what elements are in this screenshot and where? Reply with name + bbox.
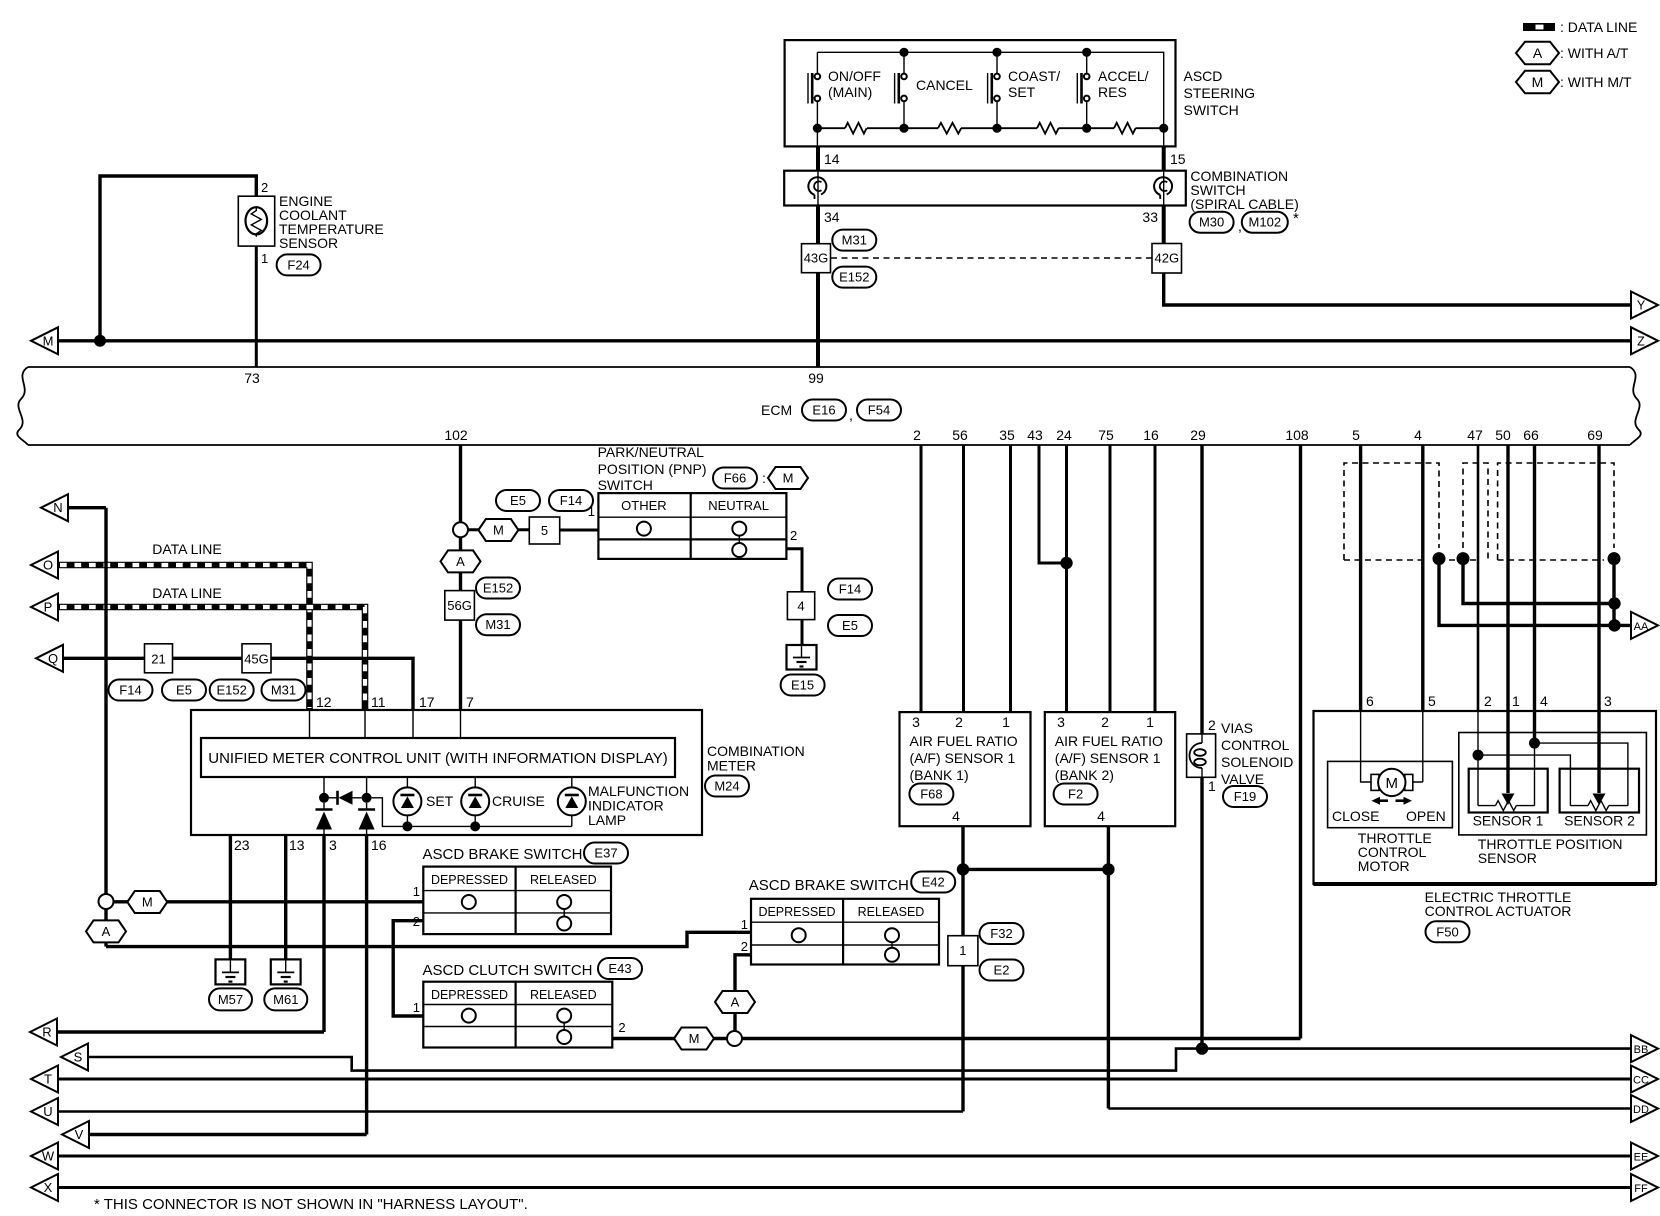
- connector oval E5 (PNP): [496, 490, 540, 511]
- svg-text:ASCD CLUTCH SWITCH: ASCD CLUTCH SWITCH: [423, 962, 593, 979]
- connector box 1 (F32/E2): [948, 936, 978, 966]
- svg-text:2: 2: [261, 180, 268, 195]
- connector oval F66: [713, 468, 757, 489]
- hexagon M (PNP branch): [478, 519, 518, 541]
- wire ECM 102 down to meter pin 7: [459, 445, 462, 710]
- svg-text:DATA LINE: DATA LINE: [152, 541, 222, 557]
- svg-text:23: 23: [234, 837, 250, 853]
- legend data line symbol: [1523, 19, 1637, 35]
- svg-text:1: 1: [959, 943, 966, 958]
- svg-text:E43: E43: [608, 961, 631, 976]
- svg-text:U: U: [43, 1104, 52, 1119]
- connector box 4: [787, 592, 814, 620]
- svg-text:66: 66: [1523, 427, 1539, 443]
- junction dot bank1 pin4: [957, 863, 969, 875]
- data line wire from P to meter pin 11: [58, 607, 365, 710]
- ground symbol M61: [271, 959, 301, 984]
- junction dot on Z line at x=100: [94, 335, 106, 347]
- spiral cable contact symbol left: [808, 171, 826, 206]
- svg-text:FF: FF: [1634, 1183, 1648, 1195]
- ASCD steering switch outer box: [785, 40, 1176, 146]
- wires meter top edge to unified unit: [309, 710, 311, 738]
- connector oval E5 (Q line): [162, 680, 206, 701]
- svg-text:1: 1: [1208, 778, 1216, 794]
- svg-text:2: 2: [1101, 714, 1109, 730]
- svg-text:ON/OFF: ON/OFF: [828, 68, 881, 84]
- dot CRUISE on rail: [470, 821, 480, 831]
- svg-text:F14: F14: [560, 493, 582, 508]
- wire ECM 24 to AF bank2 pin 3: [1065, 445, 1068, 712]
- svg-text:M61: M61: [273, 992, 298, 1007]
- arrow S (left edge): [61, 1044, 88, 1071]
- svg-text:43: 43: [1027, 427, 1043, 443]
- svg-text:E5: E5: [510, 493, 526, 508]
- svg-text:1: 1: [1512, 693, 1520, 709]
- ECM band top line: [28, 366, 1630, 368]
- svg-text:DEPRESSED: DEPRESSED: [431, 988, 508, 1002]
- wire unit to pin16 node: [366, 777, 368, 798]
- svg-text:* THIS CONNECTOR IS NOT SHOWN: * THIS CONNECTOR IS NOT SHOWN IN "HARNES…: [94, 1196, 528, 1213]
- wire box 5 to PNP pin 1: [560, 529, 599, 532]
- junction dot bank2 pin4: [1102, 863, 1114, 875]
- svg-text:ECM: ECM: [761, 402, 792, 418]
- svg-text:RELEASED: RELEASED: [530, 873, 597, 887]
- wire bank1 pin 4 down through box 1 to U line: [961, 826, 964, 1111]
- svg-text:ACCEL/: ACCEL/: [1098, 68, 1149, 84]
- ASCD clutch switch E43 table: [423, 982, 612, 1048]
- svg-text:SENSOR: SENSOR: [279, 235, 338, 251]
- wire X to FF: [58, 1186, 1631, 1189]
- junction dot VIAS/BB: [1196, 1042, 1208, 1054]
- wire ECM 43 joining pin 24 wire: [1039, 445, 1067, 563]
- thermistor symbol: [245, 207, 267, 237]
- svg-text:RES: RES: [1098, 84, 1127, 100]
- bottom rail segment 2 with resistor: [904, 123, 997, 134]
- shield drain dot 1: [1433, 552, 1446, 565]
- svg-text:M: M: [1386, 775, 1399, 792]
- svg-text:SWITCH: SWITCH: [1184, 102, 1239, 118]
- svg-text:F54: F54: [868, 403, 890, 418]
- svg-text:6: 6: [1366, 693, 1374, 709]
- svg-text:35: 35: [999, 427, 1015, 443]
- wire comb switch pin 34 down to ECM 99: [816, 206, 820, 368]
- svg-text:E15: E15: [791, 678, 814, 693]
- connector oval E152 (Q line): [210, 680, 254, 701]
- svg-text:CC: CC: [1633, 1075, 1649, 1087]
- junction circle on N bus: [99, 894, 114, 909]
- wire M to Z (main horizontal bus): [58, 339, 1631, 342]
- wire ECM 2 to AF bank1 pin 3: [920, 445, 923, 712]
- combination switch (spiral cable) box: [784, 171, 1186, 206]
- svg-text:M57: M57: [218, 992, 243, 1007]
- svg-text:1: 1: [413, 1000, 420, 1015]
- svg-text:33: 33: [1142, 209, 1158, 225]
- svg-text:OPEN: OPEN: [1406, 808, 1446, 824]
- svg-text:VALVE: VALVE: [1221, 771, 1264, 787]
- svg-text:17: 17: [419, 694, 435, 710]
- wire ECM 75 to AF bank2 pin 2: [1109, 445, 1112, 712]
- svg-text:F14: F14: [119, 683, 141, 698]
- svg-text:CANCEL: CANCEL: [916, 77, 973, 93]
- svg-text:CONTROL: CONTROL: [1221, 737, 1290, 753]
- connector box 45G: [242, 644, 271, 673]
- svg-text:5: 5: [541, 523, 548, 538]
- ground symbol M57: [216, 959, 246, 984]
- svg-text:7: 7: [466, 694, 474, 710]
- legend hexagon A (with A/T): [1516, 42, 1629, 64]
- wire rail to box bottom pin 14: [816, 128, 818, 146]
- svg-text:(BANK 2): (BANK 2): [1055, 767, 1114, 783]
- connector box 56G: [445, 591, 475, 621]
- VIAS control solenoid valve box with coil: [1187, 734, 1216, 777]
- svg-text:DATA LINE: DATA LINE: [152, 585, 222, 601]
- unified meter control unit box: [201, 738, 675, 777]
- svg-text:A: A: [1533, 45, 1543, 61]
- svg-text:2: 2: [1208, 717, 1216, 733]
- connector oval F14 (Q line): [109, 680, 153, 701]
- svg-text:DEPRESSED: DEPRESSED: [431, 873, 508, 887]
- connector oval F32: [980, 923, 1024, 944]
- shield dashed box around sensor wires: [1449, 463, 1614, 560]
- svg-text:ASCD BRAKE SWITCH: ASCD BRAKE SWITCH: [749, 877, 909, 894]
- svg-text:Q: Q: [48, 651, 58, 666]
- arrow Z (right edge): [1631, 327, 1658, 354]
- svg-text:COAST/: COAST/: [1008, 68, 1060, 84]
- wire E43 pin 2 to M hexagon and junction circle: [612, 1037, 727, 1040]
- svg-text:4: 4: [1540, 693, 1548, 709]
- svg-text:2: 2: [413, 914, 420, 929]
- wire box 4 to ground E15: [801, 620, 804, 645]
- svg-text:E37: E37: [594, 846, 617, 861]
- wire Q to box 21: [63, 657, 145, 660]
- svg-text:: WITH M/T: : WITH M/T: [1560, 74, 1632, 90]
- svg-text:X: X: [44, 1180, 53, 1195]
- wire from coolant sensor pin 2 up and left to M line: [100, 176, 256, 341]
- svg-text:E152: E152: [483, 581, 513, 596]
- connector box 43G: [802, 244, 831, 273]
- svg-text:R: R: [42, 1025, 51, 1040]
- throttle control motor box: [1328, 761, 1453, 827]
- sensor2 inner box: [1560, 769, 1639, 813]
- node dot pin3: [319, 793, 329, 803]
- svg-text:RELEASED: RELEASED: [530, 988, 597, 1002]
- svg-text:N: N: [53, 500, 62, 515]
- svg-text:VIAS: VIAS: [1221, 720, 1253, 736]
- connector oval F54: [857, 400, 901, 421]
- svg-text:E5: E5: [842, 618, 858, 633]
- sensor2 resistor: [1570, 801, 1628, 811]
- svg-text:Y: Y: [1637, 299, 1646, 313]
- connector oval F19: [1223, 786, 1267, 807]
- link wire pin4 to sensor2 right: [1535, 743, 1628, 806]
- svg-text:108: 108: [1285, 427, 1309, 443]
- wire ECM 4 to throttle motor open: [1421, 445, 1424, 711]
- wire VIAS pin 1 down to BB junction: [1200, 777, 1203, 1048]
- connector oval E15: [781, 675, 825, 696]
- svg-text:F68: F68: [920, 787, 942, 802]
- wire junction to box 5: [468, 528, 529, 531]
- svg-text:M31: M31: [842, 233, 867, 248]
- svg-text:29: 29: [1190, 427, 1206, 443]
- hexagon A on 102 wire: [441, 550, 481, 572]
- svg-text:1: 1: [261, 251, 268, 266]
- E43 contact circles: [462, 1009, 571, 1044]
- svg-text:E152: E152: [839, 270, 869, 285]
- svg-text:1: 1: [1002, 714, 1010, 730]
- wire S to BB: [88, 1049, 1631, 1071]
- svg-text:O: O: [43, 558, 53, 573]
- vertical diode under pin16 node: [358, 803, 375, 835]
- ground symbol E15: [787, 645, 817, 670]
- wire below junction circle through A hexagon to corner: [104, 902, 107, 947]
- svg-text:A: A: [102, 924, 111, 939]
- E42 contact circles: [792, 928, 899, 962]
- svg-text:1: 1: [1146, 714, 1154, 730]
- wire rail to box bottom pin 15: [1163, 128, 1165, 146]
- connector oval E42: [911, 872, 955, 893]
- connector oval F2: [1054, 784, 1098, 805]
- wire pin4 down to sensor1 resistor right: [1534, 743, 1536, 806]
- electric throttle control actuator outer box: [1314, 711, 1657, 884]
- hexagon M (E37 branch): [127, 891, 167, 913]
- connector oval M57: [209, 988, 252, 1010]
- svg-text:A: A: [731, 995, 740, 1010]
- svg-text:BB: BB: [1634, 1044, 1649, 1056]
- vertical diode under pin3 node: [316, 803, 333, 835]
- wire N to vertical bus: [68, 506, 106, 509]
- arrow R (left edge): [30, 1019, 57, 1046]
- svg-text:12: 12: [316, 694, 332, 710]
- svg-text:(BANK 1): (BANK 1): [910, 767, 969, 783]
- svg-text:F2: F2: [1068, 787, 1083, 802]
- svg-text:W: W: [42, 1149, 55, 1164]
- wire unit to pin3 node: [323, 777, 325, 798]
- shield drain wire 2: [1463, 559, 1615, 604]
- SET indicator lamp: [393, 787, 421, 815]
- svg-text:SOLENOID: SOLENOID: [1221, 754, 1293, 770]
- connector oval E37: [584, 843, 628, 864]
- svg-text:CRUISE: CRUISE: [492, 793, 545, 809]
- throttle position sensor box: [1459, 733, 1647, 835]
- svg-text:: WITH A/T: : WITH A/T: [1560, 45, 1629, 61]
- svg-text:5: 5: [1352, 427, 1360, 443]
- connector box 42G: [1152, 244, 1182, 274]
- arrow N (left edge): [41, 494, 68, 521]
- motor circle M: [1378, 769, 1405, 796]
- svg-text:P: P: [44, 600, 53, 615]
- svg-text:T: T: [44, 1072, 52, 1087]
- spiral cable contact symbol right: [1154, 171, 1172, 206]
- svg-text:F66: F66: [724, 471, 746, 486]
- svg-text:CONTROL ACTUATOR: CONTROL ACTUATOR: [1425, 903, 1572, 919]
- svg-text:69: 69: [1587, 427, 1603, 443]
- svg-text:2: 2: [955, 714, 963, 730]
- arrow CC (right edge): [1631, 1066, 1658, 1093]
- connector oval M31 (56G): [476, 614, 520, 635]
- arrow O (left edge): [31, 552, 58, 579]
- svg-text:SET: SET: [426, 793, 454, 809]
- lamp rail from pin16 node: [372, 798, 572, 827]
- svg-text:: DATA LINE: : DATA LINE: [1560, 19, 1637, 35]
- svg-text:SENSOR 2: SENSOR 2: [1564, 813, 1635, 829]
- svg-text:OTHER: OTHER: [621, 498, 667, 513]
- switch CANCEL: [895, 52, 907, 128]
- wire ECM 50 to sensor1 wiper: [1506, 445, 1509, 793]
- svg-text:13: 13: [289, 837, 305, 853]
- junction dot drain mid: [1608, 597, 1620, 609]
- sensor1 inner box: [1469, 769, 1548, 813]
- svg-text:E152: E152: [217, 683, 247, 698]
- junction dot drain AA: [1608, 619, 1620, 631]
- air fuel ratio sensor bank 1 box: [900, 712, 1031, 826]
- svg-text:M: M: [1532, 74, 1544, 90]
- wire N vertical bus down to junction circle: [104, 508, 107, 894]
- air fuel ratio sensor bank 2 box: [1045, 712, 1175, 826]
- svg-text:S: S: [74, 1050, 83, 1065]
- wire U to box1 riser: [58, 1110, 963, 1113]
- svg-text:M: M: [493, 523, 504, 538]
- node dot top rail at COAST/SET: [992, 48, 1001, 57]
- node dot top rail at CANCEL: [899, 48, 908, 57]
- wire DD from bank2 riser: [1108, 1107, 1631, 1110]
- hexagon A (E42 branch): [715, 991, 755, 1013]
- wire box 21 to box 45G: [173, 657, 243, 660]
- wire ECM 66 to sensor dot: [1533, 445, 1536, 743]
- wire ECM 35 to AF bank1 pin 1: [1009, 445, 1012, 712]
- svg-text:21: 21: [151, 651, 165, 666]
- switch COAST/SET: [988, 52, 1000, 128]
- connector oval M24: [705, 776, 749, 797]
- sensor1 resistor: [1478, 801, 1535, 811]
- connector oval M31 (43G upper): [832, 230, 876, 251]
- svg-text:4: 4: [952, 808, 960, 824]
- arrow P (left edge): [31, 594, 58, 621]
- svg-text:2: 2: [618, 1020, 625, 1035]
- svg-text:3: 3: [1057, 714, 1065, 730]
- ASCD brake switch E42 table: [751, 899, 939, 965]
- svg-text:*: *: [1293, 210, 1299, 227]
- wire meter pin 16 down to V line: [365, 835, 368, 1135]
- horizontal diode between nodes: [329, 791, 362, 805]
- svg-text:2: 2: [913, 427, 921, 443]
- connector oval F68: [909, 784, 953, 805]
- connector oval E5 (box 4): [828, 615, 872, 636]
- connector oval E2: [980, 960, 1024, 981]
- wire A line to E42 pin 1: [106, 932, 751, 946]
- svg-text:M24: M24: [714, 779, 739, 794]
- svg-text:DD: DD: [1633, 1104, 1649, 1116]
- svg-text:56G: 56G: [447, 598, 472, 613]
- node dot pin16: [362, 793, 372, 803]
- connector oval M102: [1242, 212, 1288, 233]
- bottom rail segment 4 with resistor: [1087, 123, 1164, 134]
- dot pin4 link: [1529, 738, 1540, 749]
- wire coolant sensor pin 1 to ECM pin 73: [255, 246, 258, 367]
- wire W to EE: [58, 1155, 1631, 1158]
- wire meter pin 13 to ground M61: [284, 835, 287, 959]
- svg-text:(MAIN): (MAIN): [828, 84, 872, 100]
- arrow V (left edge): [62, 1121, 89, 1148]
- svg-text:EE: EE: [1634, 1152, 1649, 1164]
- connector oval E152 (56G): [476, 578, 520, 599]
- E37 contact circles: [462, 895, 571, 931]
- wire V to meter pin 16 riser: [89, 1133, 367, 1136]
- wire pin 15 to combination switch: [1162, 146, 1166, 170]
- connector oval F14 (box 4): [828, 579, 872, 600]
- svg-text:M31: M31: [485, 617, 510, 632]
- svg-text:M: M: [142, 895, 153, 910]
- actuator bottom thick edge: [1314, 882, 1657, 886]
- svg-text:ASCD: ASCD: [1184, 68, 1223, 84]
- svg-text:F14: F14: [839, 582, 861, 597]
- switch ON/OFF (MAIN): [808, 52, 820, 128]
- svg-text:E5: E5: [176, 683, 192, 698]
- wire 42G to Y arrow: [1164, 273, 1631, 305]
- connector oval M31 (Q line): [262, 680, 306, 701]
- svg-text:4: 4: [1097, 808, 1105, 824]
- wire ECM 69 to sensor2 wiper: [1597, 445, 1600, 793]
- svg-text:PARK/NEUTRAL: PARK/NEUTRAL: [598, 444, 705, 460]
- arrow FF (right edge): [1631, 1174, 1658, 1201]
- svg-text:5: 5: [1428, 693, 1436, 709]
- connector oval M61: [264, 988, 307, 1010]
- CRUISE indicator lamp: [461, 787, 489, 815]
- wire meter pin 3 down to R line: [322, 835, 325, 1032]
- svg-text:73: 73: [244, 370, 260, 386]
- wire pin5 to right brush: [1413, 711, 1423, 782]
- svg-text:34: 34: [824, 209, 840, 225]
- svg-text:3: 3: [912, 714, 920, 730]
- svg-text:AIR FUEL RATIO: AIR FUEL RATIO: [1055, 733, 1163, 749]
- svg-text:LAMP: LAMP: [588, 812, 626, 828]
- svg-text:24: 24: [1056, 427, 1072, 443]
- svg-text:SET: SET: [1008, 84, 1036, 100]
- connector box 5: [529, 517, 559, 544]
- svg-text:2: 2: [741, 939, 748, 954]
- wire ECM 56 to AF bank1 pin 2: [962, 445, 965, 712]
- svg-text:AIR FUEL RATIO: AIR FUEL RATIO: [910, 733, 1018, 749]
- dot SET on rail: [402, 821, 412, 831]
- svg-text:3: 3: [1604, 693, 1612, 709]
- wire junction to M hexagon to E37 pin 1: [114, 900, 424, 903]
- svg-text:A: A: [456, 554, 465, 569]
- connector oval E16: [802, 400, 846, 421]
- svg-text:3: 3: [329, 837, 337, 853]
- MIL lamp wire: [571, 777, 573, 826]
- shield drain dot 2: [1457, 552, 1470, 565]
- svg-text:UNIFIED METER CONTROL UNIT (WI: UNIFIED METER CONTROL UNIT (WITH INFORMA…: [208, 750, 667, 767]
- wire pin 14 to combination switch: [816, 146, 820, 170]
- connector oval M30: [1190, 212, 1234, 233]
- svg-text:F32: F32: [990, 926, 1012, 941]
- svg-text:ASCD BRAKE SWITCH: ASCD BRAKE SWITCH: [423, 846, 583, 863]
- wire ECM 29 to VIAS solenoid pin 2: [1200, 445, 1203, 734]
- arrow Q (left edge): [36, 645, 63, 672]
- wire T to CC: [58, 1078, 1631, 1081]
- svg-text:,: ,: [849, 407, 853, 423]
- bottom rail segment 3 with resistor: [997, 123, 1087, 134]
- svg-text:99: 99: [808, 370, 824, 386]
- arrow T (left edge): [31, 1066, 58, 1093]
- svg-text:11: 11: [371, 694, 386, 710]
- wire comb switch pin 33 down to 42G: [1162, 206, 1166, 244]
- arrow M (left edge): [31, 327, 58, 354]
- link wire between pin4 dots: [963, 868, 1108, 871]
- svg-text:75: 75: [1098, 427, 1114, 443]
- junction circle clutch/E42: [727, 1031, 742, 1046]
- svg-text:2: 2: [1484, 693, 1492, 709]
- svg-text:DEPRESSED: DEPRESSED: [758, 905, 835, 919]
